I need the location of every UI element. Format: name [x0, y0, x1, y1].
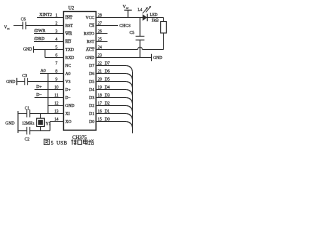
svg-text:XO: XO: [65, 119, 71, 124]
svg-text:D−: D−: [36, 92, 42, 97]
svg-text:Vcc: Vcc: [4, 25, 10, 31]
svg-text:4: 4: [55, 37, 57, 42]
svg-text:18: 18: [98, 93, 102, 98]
svg-text:19: 19: [98, 85, 102, 90]
svg-text:27: 27: [98, 21, 102, 26]
svg-text:D3: D3: [89, 95, 94, 100]
svg-text:13: 13: [54, 109, 58, 114]
svg-text:C5: C5: [130, 30, 135, 35]
svg-text:XI: XI: [65, 111, 70, 116]
svg-text:/DWR: /DWR: [34, 28, 46, 33]
svg-text:11: 11: [54, 93, 58, 98]
svg-text:5: 5: [55, 45, 57, 50]
svg-text:5: 5: [51, 141, 54, 147]
svg-text:D0: D0: [105, 116, 110, 121]
svg-text:D2: D2: [105, 100, 110, 105]
svg-text:12: 12: [54, 101, 58, 106]
svg-text:D5: D5: [89, 79, 94, 84]
svg-text:1: 1: [55, 13, 57, 18]
svg-text:WR: WR: [65, 31, 72, 36]
svg-text:D+: D+: [36, 84, 42, 89]
svg-text:INT: INT: [65, 15, 72, 20]
svg-text:GND: GND: [85, 55, 94, 60]
svg-text:D1: D1: [89, 111, 94, 116]
svg-text:24: 24: [98, 45, 102, 50]
svg-text:3: 3: [55, 29, 57, 34]
svg-text:RXD: RXD: [65, 55, 74, 60]
svg-text:14: 14: [54, 117, 58, 122]
svg-text:NC: NC: [65, 63, 71, 68]
svg-text:ACT: ACT: [86, 47, 95, 52]
svg-text:GND: GND: [65, 103, 74, 108]
svg-text:22: 22: [98, 61, 102, 66]
svg-text:/DRD: /DRD: [34, 36, 45, 41]
svg-text:7: 7: [55, 61, 57, 66]
svg-text:Y1: Y1: [46, 121, 51, 126]
svg-text:LED: LED: [150, 12, 158, 17]
svg-text:10: 10: [54, 85, 58, 90]
svg-text:1kΩ: 1kΩ: [151, 18, 158, 23]
svg-text:TXD: TXD: [65, 47, 74, 52]
svg-text:25: 25: [98, 37, 102, 42]
svg-text:A0: A0: [40, 68, 46, 73]
svg-text:D5: D5: [105, 76, 110, 81]
svg-text:28: 28: [98, 13, 102, 18]
svg-text:21: 21: [98, 69, 102, 74]
svg-text:15: 15: [98, 117, 102, 122]
svg-text:6: 6: [55, 53, 57, 58]
svg-text:D+: D+: [65, 87, 71, 92]
svg-text:2: 2: [55, 21, 57, 26]
svg-text:CS: CS: [89, 23, 95, 28]
svg-text:D−: D−: [65, 95, 71, 100]
svg-text:D2: D2: [89, 103, 94, 108]
svg-text:D0: D0: [89, 119, 94, 124]
svg-text:D4: D4: [89, 87, 95, 92]
svg-text:C2: C2: [25, 137, 30, 142]
svg-text:C3: C3: [22, 73, 27, 78]
svg-text:C1: C1: [25, 106, 30, 111]
svg-text:GND: GND: [153, 55, 162, 60]
svg-text:A0: A0: [65, 71, 70, 76]
svg-text:GND: GND: [23, 46, 32, 51]
svg-text:USB: USB: [56, 141, 67, 147]
svg-text:26: 26: [98, 29, 102, 34]
svg-text:Vcc: Vcc: [123, 4, 129, 10]
svg-text:D3: D3: [105, 92, 110, 97]
svg-text:D1: D1: [105, 108, 110, 113]
svg-text:RST: RST: [87, 39, 95, 44]
svg-text:CHCS: CHCS: [119, 23, 131, 28]
svg-text:XINT2: XINT2: [39, 12, 52, 17]
svg-text:RST: RST: [65, 23, 73, 28]
svg-text:C6: C6: [21, 17, 26, 22]
svg-text:17: 17: [98, 101, 102, 106]
svg-text:D7: D7: [89, 63, 94, 68]
svg-text:GND: GND: [5, 121, 14, 126]
svg-text:V3: V3: [65, 79, 70, 84]
svg-text:VCC: VCC: [86, 15, 95, 20]
svg-text:20: 20: [98, 77, 102, 82]
svg-text:16: 16: [98, 109, 102, 114]
svg-text:D4: D4: [105, 84, 111, 89]
svg-text:D6: D6: [105, 68, 110, 73]
svg-text:RSTO: RSTO: [84, 31, 95, 36]
svg-text:D6: D6: [89, 71, 94, 76]
svg-text:9: 9: [55, 77, 57, 82]
svg-text:12MHz: 12MHz: [22, 121, 34, 126]
svg-text:D7: D7: [105, 60, 110, 65]
svg-text:8: 8: [55, 69, 57, 74]
svg-text:U2: U2: [68, 6, 74, 11]
svg-text:23: 23: [98, 53, 102, 58]
svg-text:RD: RD: [65, 39, 71, 44]
svg-text:GND: GND: [6, 79, 15, 84]
